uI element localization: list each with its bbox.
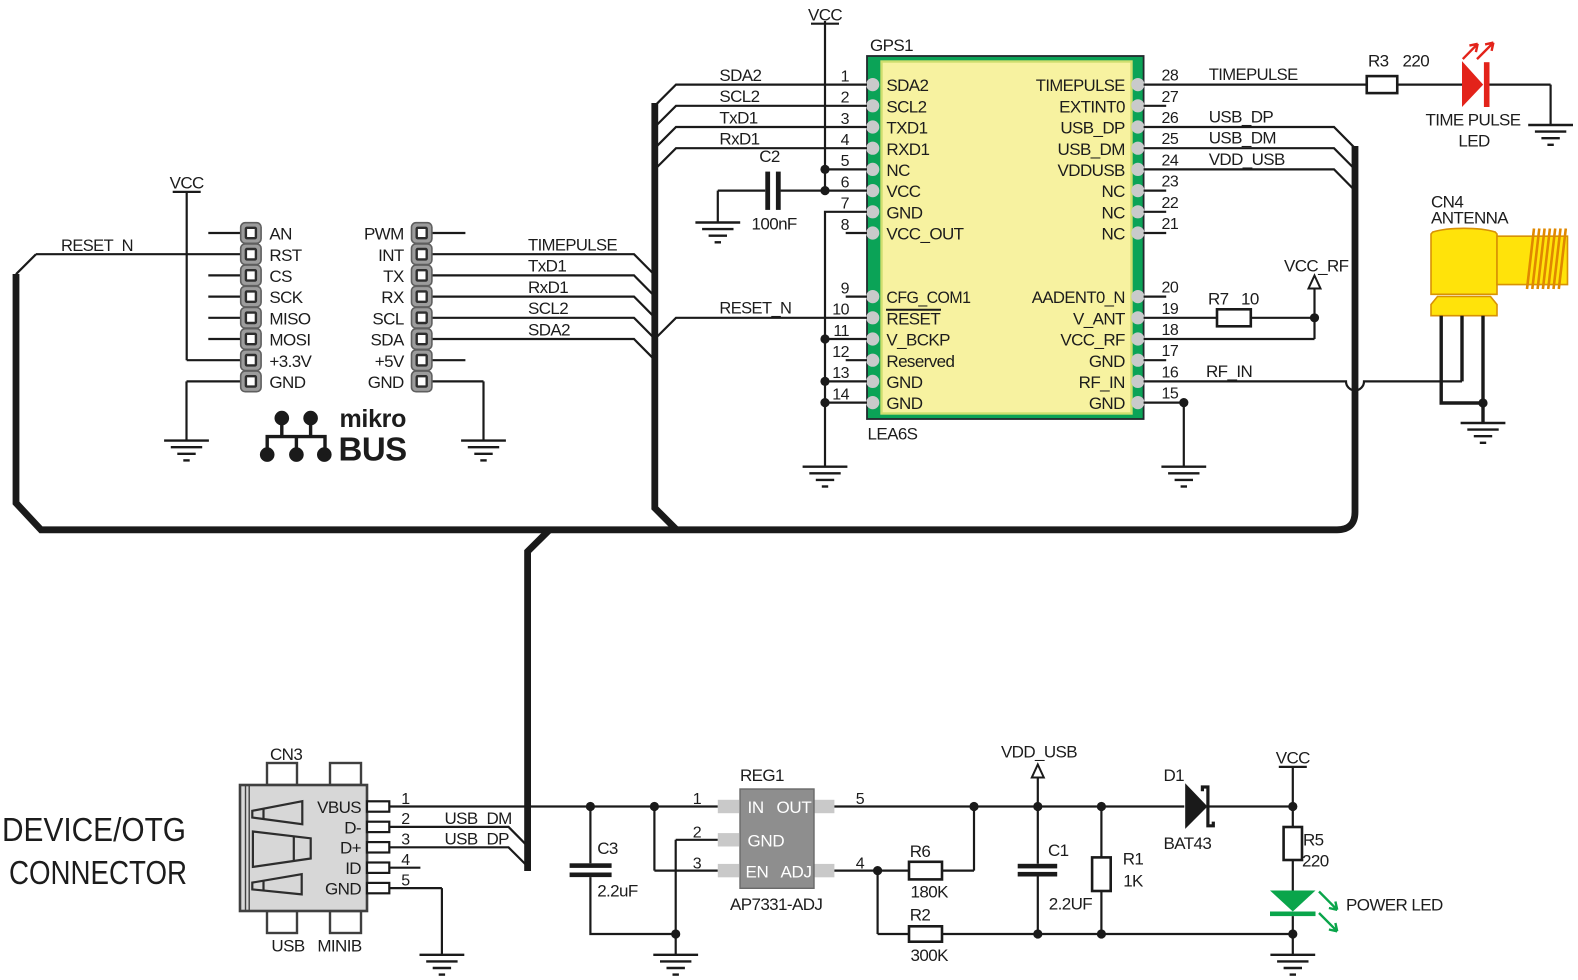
svg-text:6: 6: [841, 174, 850, 191]
svg-text:NC: NC: [1101, 182, 1125, 201]
svg-text:SCL2: SCL2: [719, 87, 759, 106]
svg-text:VCC_RF: VCC_RF: [1284, 257, 1349, 276]
svg-text:TxD1: TxD1: [719, 108, 757, 127]
svg-text:C2: C2: [759, 147, 780, 166]
svg-text:3: 3: [841, 111, 850, 128]
svg-text:3: 3: [401, 832, 410, 849]
svg-text:4: 4: [401, 852, 410, 869]
svg-text:RESET_N: RESET_N: [61, 236, 133, 255]
svg-text:NC: NC: [886, 161, 910, 180]
svg-text:mikro: mikro: [340, 405, 407, 433]
svg-text:24: 24: [1162, 152, 1179, 169]
svg-text:USB_DP: USB_DP: [445, 830, 510, 849]
svg-text:VCC: VCC: [170, 174, 204, 193]
svg-text:10: 10: [1241, 290, 1259, 309]
svg-text:220: 220: [1403, 52, 1430, 71]
svg-text:1: 1: [841, 68, 850, 85]
svg-text:21: 21: [1162, 216, 1179, 233]
svg-text:USB_DM: USB_DM: [1058, 140, 1125, 159]
svg-text:POWER LED: POWER LED: [1346, 896, 1443, 915]
svg-text:VDD_USB: VDD_USB: [1001, 743, 1077, 762]
svg-text:NC: NC: [1101, 225, 1125, 244]
svg-text:MISO: MISO: [269, 309, 310, 328]
svg-text:RF_IN: RF_IN: [1206, 362, 1252, 381]
svg-text:BUS: BUS: [339, 430, 407, 467]
svg-text:D-: D-: [344, 818, 361, 837]
svg-text:RST: RST: [269, 246, 301, 265]
svg-text:23: 23: [1162, 174, 1179, 191]
svg-text:TXD1: TXD1: [886, 119, 927, 138]
svg-text:NC: NC: [1101, 203, 1125, 222]
svg-text:VCC_RF: VCC_RF: [1060, 331, 1125, 350]
svg-text:USB_DM: USB_DM: [1209, 129, 1276, 148]
svg-text:10: 10: [832, 302, 849, 319]
svg-text:D+: D+: [340, 839, 362, 858]
svg-text:SCL2: SCL2: [528, 299, 568, 318]
svg-text:CN3: CN3: [270, 745, 302, 764]
svg-text:ID: ID: [345, 859, 361, 878]
svg-text:1: 1: [401, 791, 410, 808]
svg-text:220: 220: [1302, 852, 1329, 871]
svg-text:C1: C1: [1048, 841, 1069, 860]
svg-text:CONNECTOR: CONNECTOR: [9, 854, 187, 891]
svg-text:1K: 1K: [1123, 871, 1144, 890]
svg-text:TxD1: TxD1: [528, 257, 566, 276]
svg-text:RESET: RESET: [886, 309, 940, 328]
svg-text:INT: INT: [378, 246, 404, 265]
svg-text:USB: USB: [271, 937, 304, 956]
svg-text:300K: 300K: [911, 946, 950, 965]
svg-text:LEA6S: LEA6S: [868, 425, 918, 444]
svg-text:180K: 180K: [911, 883, 950, 902]
svg-text:V_ANT: V_ANT: [1073, 309, 1125, 328]
svg-text:ANTENNA: ANTENNA: [1431, 209, 1509, 228]
svg-text:100nF: 100nF: [752, 215, 797, 234]
svg-text:GPS1: GPS1: [870, 36, 913, 55]
svg-text:RXD1: RXD1: [886, 140, 929, 159]
svg-text:2.2UF: 2.2UF: [1049, 895, 1093, 914]
svg-text:RF_IN: RF_IN: [1079, 373, 1125, 392]
svg-text:MOSI: MOSI: [269, 331, 310, 350]
svg-text:VCC: VCC: [886, 182, 920, 201]
svg-text:V_BCKP: V_BCKP: [886, 331, 950, 350]
svg-text:15: 15: [1162, 386, 1179, 403]
svg-text:AADENT0_N: AADENT0_N: [1032, 288, 1125, 307]
svg-text:26: 26: [1162, 110, 1179, 127]
svg-text:2: 2: [841, 90, 850, 107]
svg-text:RxD1: RxD1: [528, 278, 568, 297]
svg-text:DEVICE/OTG: DEVICE/OTG: [2, 811, 186, 848]
svg-text:VCC_OUT: VCC_OUT: [886, 225, 963, 244]
svg-text:PWM: PWM: [364, 225, 404, 244]
svg-text:USB_DM: USB_DM: [445, 809, 512, 828]
svg-text:SDA2: SDA2: [719, 66, 761, 85]
svg-text:14: 14: [832, 386, 849, 403]
svg-text:RX: RX: [381, 288, 404, 307]
svg-text:EXTINT0: EXTINT0: [1059, 97, 1125, 116]
svg-text:RESET_N: RESET_N: [719, 298, 791, 317]
svg-text:GND: GND: [886, 373, 922, 392]
svg-text:ADJ: ADJ: [781, 862, 812, 881]
svg-text:20: 20: [1162, 280, 1179, 297]
svg-text:OUT: OUT: [777, 798, 812, 817]
svg-text:TX: TX: [383, 267, 404, 286]
svg-text:EN: EN: [746, 862, 769, 881]
svg-text:5: 5: [841, 153, 850, 170]
svg-text:28: 28: [1162, 68, 1179, 85]
svg-text:GND: GND: [886, 203, 922, 222]
svg-text:+5V: +5V: [375, 352, 405, 371]
svg-text:27: 27: [1162, 89, 1179, 106]
svg-text:GND: GND: [368, 373, 404, 392]
svg-text:R3: R3: [1368, 52, 1389, 71]
svg-text:TIMEPULSE: TIMEPULSE: [1209, 65, 1298, 84]
svg-text:1: 1: [693, 791, 702, 808]
svg-text:5: 5: [401, 872, 410, 889]
svg-text:VDDUSB: VDDUSB: [1058, 161, 1126, 180]
svg-text:USB_DP: USB_DP: [1060, 119, 1125, 138]
svg-text:C3: C3: [597, 839, 618, 858]
svg-text:SCL: SCL: [372, 309, 403, 328]
svg-text:GND: GND: [1089, 394, 1125, 413]
svg-text:GND: GND: [269, 373, 305, 392]
svg-text:R6: R6: [910, 842, 931, 861]
svg-text:SDA2: SDA2: [886, 76, 928, 95]
svg-text:GND: GND: [325, 880, 361, 899]
svg-text:2.2uF: 2.2uF: [597, 882, 638, 901]
svg-text:3: 3: [693, 855, 702, 872]
svg-text:R7: R7: [1208, 290, 1229, 309]
svg-text:VBUS: VBUS: [317, 798, 361, 817]
svg-text:16: 16: [1162, 364, 1179, 381]
svg-text:2: 2: [693, 825, 702, 842]
svg-text:SCK: SCK: [269, 288, 303, 307]
svg-text:4: 4: [841, 132, 850, 149]
svg-text:MINIB: MINIB: [317, 937, 361, 956]
svg-text:VCC: VCC: [1276, 749, 1310, 768]
svg-text:REG1: REG1: [740, 766, 784, 785]
svg-text:17: 17: [1162, 343, 1179, 360]
svg-text:LED: LED: [1458, 131, 1490, 150]
svg-text:TIME PULSE: TIME PULSE: [1425, 110, 1520, 129]
svg-text:GND: GND: [748, 831, 785, 850]
svg-text:R2: R2: [910, 906, 931, 925]
svg-text:VDD_USB: VDD_USB: [1209, 150, 1285, 169]
svg-text:R1: R1: [1123, 850, 1144, 869]
svg-text:SDA2: SDA2: [528, 320, 570, 339]
svg-text:13: 13: [832, 365, 849, 382]
svg-text:SDA: SDA: [371, 331, 405, 350]
svg-text:TIMEPULSE: TIMEPULSE: [1036, 76, 1125, 95]
svg-text:18: 18: [1162, 322, 1179, 339]
svg-text:R5: R5: [1303, 831, 1324, 850]
svg-text:+3.3V: +3.3V: [269, 352, 312, 371]
svg-text:D1: D1: [1164, 766, 1185, 785]
svg-text:RxD1: RxD1: [719, 130, 759, 149]
svg-text:TIMEPULSE: TIMEPULSE: [528, 236, 617, 255]
svg-text:CFG_COM1: CFG_COM1: [886, 288, 970, 307]
svg-text:Reserved: Reserved: [886, 352, 954, 371]
svg-text:19: 19: [1162, 301, 1179, 318]
svg-text:11: 11: [833, 323, 849, 340]
svg-text:IN: IN: [748, 798, 764, 817]
svg-text:USB_DP: USB_DP: [1209, 107, 1274, 126]
svg-text:22: 22: [1162, 195, 1179, 212]
svg-text:GND: GND: [886, 394, 922, 413]
svg-text:SCL2: SCL2: [886, 97, 926, 116]
svg-text:8: 8: [841, 217, 850, 234]
svg-text:25: 25: [1162, 131, 1179, 148]
svg-text:AN: AN: [269, 225, 291, 244]
svg-text:9: 9: [841, 280, 850, 297]
svg-text:12: 12: [832, 344, 849, 361]
svg-text:7: 7: [841, 196, 850, 213]
svg-text:2: 2: [401, 811, 410, 828]
svg-text:AP7331-ADJ: AP7331-ADJ: [730, 895, 822, 914]
svg-text:BAT43: BAT43: [1164, 834, 1212, 853]
svg-text:GND: GND: [1089, 352, 1125, 371]
svg-text:CS: CS: [269, 267, 292, 286]
